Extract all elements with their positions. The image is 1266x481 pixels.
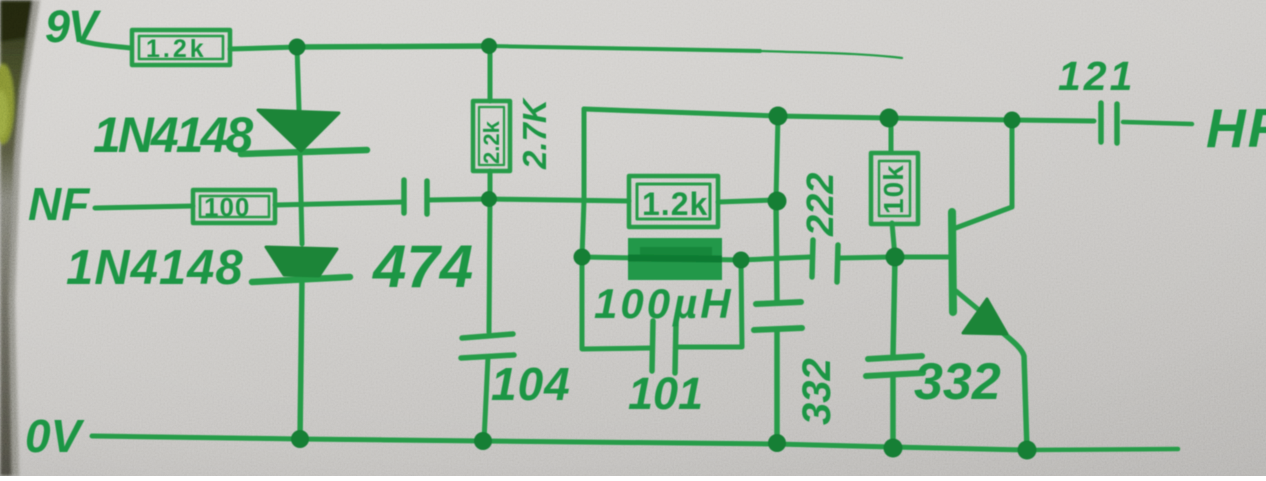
svg-text:121: 121 [1058, 53, 1135, 99]
svg-text:100: 100 [204, 192, 250, 222]
svg-text:104: 104 [491, 358, 571, 410]
svg-text:332: 332 [795, 358, 839, 425]
svg-text:10k: 10k [878, 164, 909, 214]
svg-text:2.7K: 2.7K [516, 97, 553, 170]
svg-text:332: 332 [914, 353, 1001, 411]
svg-text:1N4148: 1N4148 [66, 241, 244, 295]
svg-text:222: 222 [800, 173, 842, 237]
svg-text:0V: 0V [25, 410, 85, 462]
svg-text:101: 101 [628, 368, 703, 419]
svg-text:NF: NF [28, 178, 91, 230]
svg-text:HF: HF [1206, 97, 1266, 159]
svg-text:9V: 9V [45, 1, 102, 52]
svg-text:1N4148: 1N4148 [93, 107, 253, 163]
svg-text:2.2k: 2.2k [479, 120, 504, 164]
svg-text:100µH: 100µH [594, 280, 734, 327]
svg-text:1.2k: 1.2k [146, 35, 207, 63]
svg-text:474: 474 [372, 233, 473, 300]
svg-text:1.2k: 1.2k [642, 186, 708, 222]
